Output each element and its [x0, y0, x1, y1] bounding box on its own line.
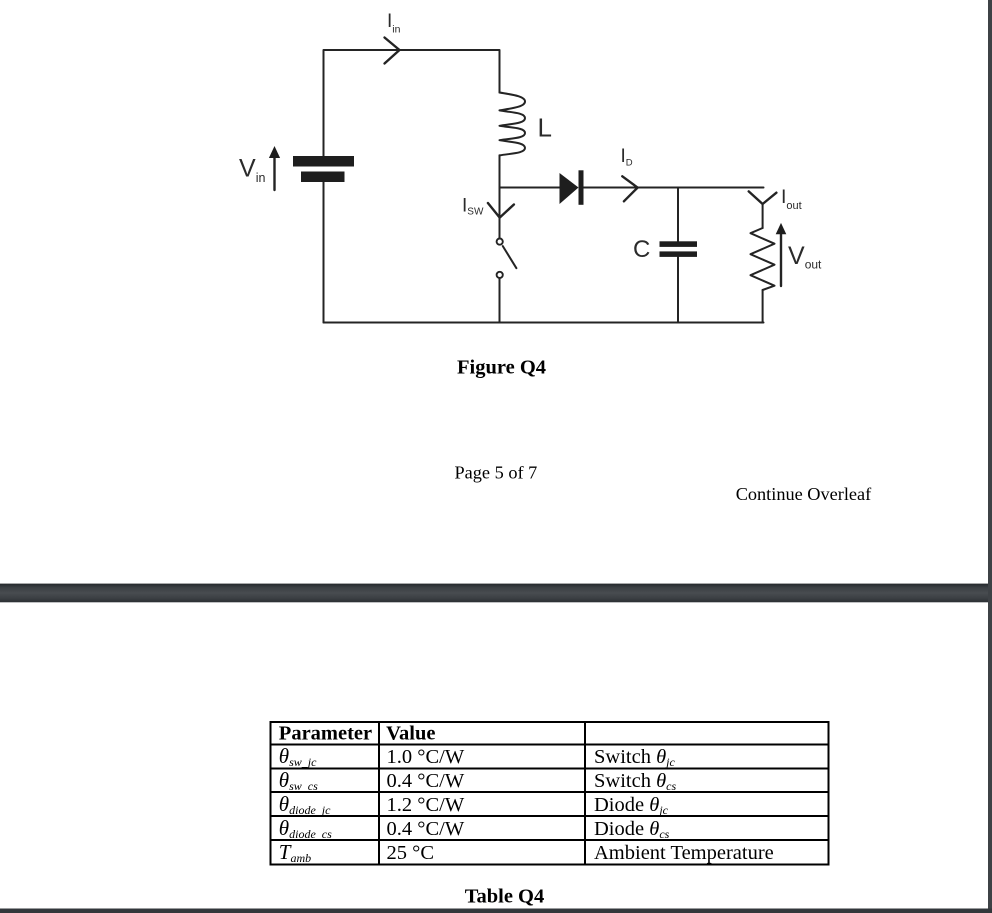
wire: inductor bottom to switch node [499, 155, 501, 238]
svg-text:Diode θjc: Diode θjc [594, 794, 669, 817]
wire: diode to output node [584, 187, 764, 189]
wire: battery negative to bottom rail [323, 182, 325, 323]
wire: capacitor top lead [677, 188, 679, 242]
wire: middle rail switch node to diode [500, 187, 560, 189]
arrowhead V_in [269, 146, 280, 158]
wire: switch bottom to ground rail [499, 278, 501, 323]
arrowhead V_out [776, 223, 787, 234]
svg-text:L: L [538, 113, 552, 143]
svg-text:Page 5 of 7: Page 5 of 7 [455, 462, 538, 482]
diode D cathode bar [579, 170, 584, 205]
diode D triangle [560, 173, 579, 204]
inductor L coil [500, 93, 526, 156]
current arrow I_SW [488, 203, 514, 218]
wire: resistor bottom to bottom rail [762, 290, 764, 323]
svg-text:Table Q4: Table Q4 [465, 886, 545, 908]
bottom page edge band [0, 909, 992, 913]
capacitor C bottom plate [660, 251, 698, 257]
battery V_in positive plate [293, 156, 354, 167]
svg-text:1.2 °C/W: 1.2 °C/W [387, 794, 465, 816]
arrow V_out shaft [780, 233, 782, 286]
switch blade [503, 246, 517, 268]
wire: capacitor bottom lead [677, 257, 679, 323]
arrow V_in shaft [273, 158, 275, 191]
wire: top horizontal (battery to inductor) [324, 50, 500, 156]
current arrow I_D [622, 176, 637, 201]
svg-text:Figure Q4: Figure Q4 [457, 357, 546, 379]
current arrow I_in [385, 38, 400, 64]
switch contact bottom [497, 272, 503, 278]
svg-text:C: C [633, 236, 650, 263]
current arrow I_out [749, 191, 777, 204]
svg-text:1.0 °C/W: 1.0 °C/W [387, 746, 465, 768]
svg-text:Switch θjc: Switch θjc [594, 746, 675, 769]
resistor R load zigzag [751, 228, 775, 290]
wire: output node to resistor [762, 205, 764, 229]
right page edge strip [988, 0, 992, 913]
table grid [271, 722, 829, 865]
wire: bottom rail [324, 322, 764, 324]
page separator band [0, 584, 992, 603]
svg-text:25 °C: 25 °C [387, 842, 435, 864]
switch contact top [497, 239, 503, 245]
svg-text:Switch θcs: Switch θcs [594, 770, 676, 793]
battery V_in negative plate [301, 172, 345, 183]
svg-text:Ambient Temperature: Ambient Temperature [594, 842, 774, 864]
svg-text:0.4 °C/W: 0.4 °C/W [387, 770, 465, 792]
svg-text:Parameter: Parameter [279, 723, 372, 745]
capacitor C top plate [660, 241, 698, 247]
svg-text:0.4 °C/W: 0.4 °C/W [387, 818, 465, 840]
svg-text:Diode θcs: Diode θcs [594, 818, 670, 841]
svg-text:Value: Value [386, 723, 435, 745]
svg-text:Continue Overleaf: Continue Overleaf [736, 484, 872, 504]
